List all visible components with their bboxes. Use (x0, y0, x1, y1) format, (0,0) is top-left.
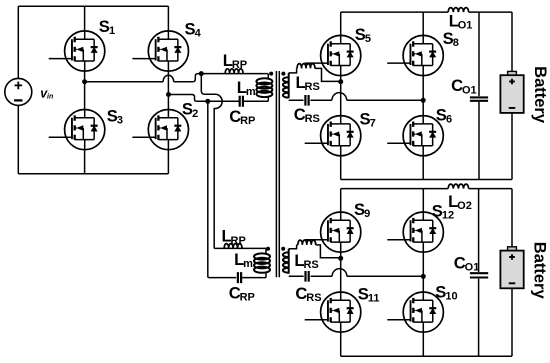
transistor S11 (305, 292, 361, 332)
inductor L_RP (bottom) (224, 244, 242, 249)
wire: drop from node (207.8,101.3) to lower tank C branch (208, 101, 236, 277)
svg-text:S1: S1 (99, 17, 115, 37)
node: T1 primary polarity dot (269, 72, 273, 76)
svg-text:S4: S4 (185, 19, 202, 39)
wire: bridge1 leg S5/S7 (340, 12, 342, 179)
wire: top tank L branch (201, 74, 268, 79)
transistor S2 (132, 110, 188, 150)
node: S12/S10 midpoint (421, 274, 426, 279)
wire: primary bridge bottom rail (18, 173, 168, 175)
wire: drop from node (201.3,73.6) to lower tank L branch, hop over C line (201, 74, 224, 249)
battery 2 (500, 247, 523, 289)
inductor L_O1 (448, 8, 468, 13)
svg-text:S2: S2 (182, 100, 198, 120)
wire: bridge1 bottom rail (341, 179, 512, 181)
wire: primary leg S4/S2 (167, 6, 169, 174)
wire: bridge1 leg S8/S6 (422, 12, 424, 179)
wire: bridge1 top rail (341, 11, 512, 13)
svg-text:S5: S5 (355, 25, 371, 45)
svg-text:LRP: LRP (222, 227, 246, 247)
transistor S1 (49, 31, 105, 71)
wire: top tank C branch (208, 97, 268, 102)
transformer T1 secondary winding (283, 73, 289, 98)
wire: bottom tank C branch right of cap (241, 273, 266, 278)
transformer T2 primary winding L_m (254, 253, 270, 272)
node: S5/S7 midpoint (338, 79, 343, 84)
wire: node B jog to C_RP branch (169, 95, 208, 102)
transistor S12 (387, 212, 443, 252)
svg-text:LO2: LO2 (448, 192, 472, 212)
svg-text:S3: S3 (107, 106, 123, 126)
wire: primary bridge top rail (18, 5, 168, 7)
svg-text:CO1: CO1 (454, 254, 480, 274)
wire: T1 secondary top lead to L_RS and S5/S7 node (289, 68, 341, 81)
svg-text:Battery: Battery (530, 242, 548, 300)
svg-text:Lm: Lm (234, 250, 253, 270)
capacitor C_O1 (top) (470, 97, 488, 100)
wire: bridge2 top rail (341, 188, 512, 190)
wire: bridge2 bottom rail (341, 355, 512, 357)
transistor S5 (305, 35, 361, 75)
svg-text:S11: S11 (358, 285, 380, 305)
voltage source v_in (5, 78, 32, 105)
svg-text:CRP: CRP (229, 107, 255, 127)
wire: bridge2 leg S12/S10 (422, 189, 424, 357)
wire: C_O1 branch (bottom) (478, 189, 480, 357)
node: T2 primary polarity dot (266, 247, 270, 251)
svg-text:LRS: LRS (294, 251, 318, 271)
svg-text:S9: S9 (354, 200, 370, 220)
wire: node A to top tank with hop over S4/S2 leg (85, 74, 202, 82)
transistor S8 (387, 35, 443, 75)
wire: primary leg S1/S3 (84, 6, 86, 174)
transistor S7 (305, 116, 361, 156)
inductor L_O2 (448, 184, 468, 189)
transistor S10 (387, 292, 443, 332)
capacitor C_RP (bottom) (238, 272, 241, 283)
inductor L_RS (top) (297, 64, 315, 69)
svg-text:S7: S7 (360, 110, 376, 130)
wire: C_O1 branch (top) (478, 12, 480, 179)
wire: T2 secondary top lead to L_RS and S9/S11 node (289, 245, 341, 258)
node: tank top split (199, 71, 204, 76)
transistor S4 (132, 31, 188, 71)
wire: battery 1 branch (511, 12, 513, 179)
node: T1 secondary polarity dot (281, 72, 285, 76)
node: T2 secondary polarity dot (281, 247, 285, 251)
wire: bottom tank L branch (224, 248, 266, 253)
wire: primary left rail (17, 6, 19, 174)
transformer T1 primary winding L_m (256, 78, 272, 97)
svg-text:LRS: LRS (296, 73, 320, 93)
svg-text:vin: vin (40, 87, 53, 101)
wire: T1 secondary bottom lead with C_RS, hop over S5/S7 leg, to S8/S6 node (289, 93, 424, 101)
capacitor C_RP (top) (240, 96, 243, 107)
transistor S3 (49, 110, 105, 150)
node: S8/S6 midpoint (421, 98, 426, 103)
capacitor C_RS (top) (305, 95, 308, 106)
wire: bridge2 leg S9/S11 (340, 189, 342, 357)
transistor S6 (387, 116, 443, 156)
battery 1 (500, 71, 523, 112)
svg-text:S8: S8 (443, 29, 459, 49)
svg-text:CRS: CRS (295, 284, 321, 304)
svg-text:LRP: LRP (223, 51, 247, 71)
node A (S1/S3 midpoint) (82, 79, 87, 84)
node: tank bottom split (205, 99, 210, 104)
node B (S4/S2 midpoint) (166, 92, 171, 97)
svg-text:LO1: LO1 (449, 12, 473, 32)
node: S9/S11 midpoint (338, 256, 343, 261)
capacitor C_O1 (bottom) (470, 273, 488, 277)
transformer core (shared) (276, 71, 279, 277)
svg-text:S6: S6 (436, 105, 452, 125)
wire: battery 2 branch (511, 189, 513, 357)
svg-text:Lm: Lm (237, 78, 256, 98)
transformer T2 secondary winding (283, 249, 289, 274)
svg-text:CRS: CRS (294, 105, 320, 125)
inductor L_RS (bottom) (298, 240, 316, 245)
svg-text:S10: S10 (435, 282, 457, 302)
svg-text:CO1: CO1 (451, 76, 477, 96)
svg-text:Battery: Battery (531, 66, 549, 124)
svg-text:CRP: CRP (229, 284, 255, 304)
inductor L_RP (top) (225, 69, 243, 74)
capacitor C_RS (bottom) (306, 271, 309, 282)
wire: T2 secondary bottom lead with C_RS, hop over S9/S11 leg, to S12/S10 node (289, 269, 424, 277)
transistor S9 (305, 212, 361, 252)
